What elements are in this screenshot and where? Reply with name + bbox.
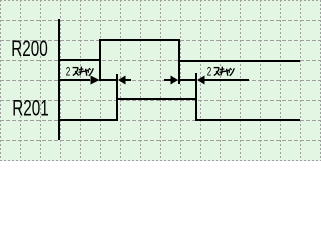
svg-text:2: 2 <box>207 66 212 79</box>
svg-text:R200: R200 <box>11 37 48 61</box>
svg-text:R201: R201 <box>12 97 49 121</box>
svg-text:2: 2 <box>66 66 71 79</box>
